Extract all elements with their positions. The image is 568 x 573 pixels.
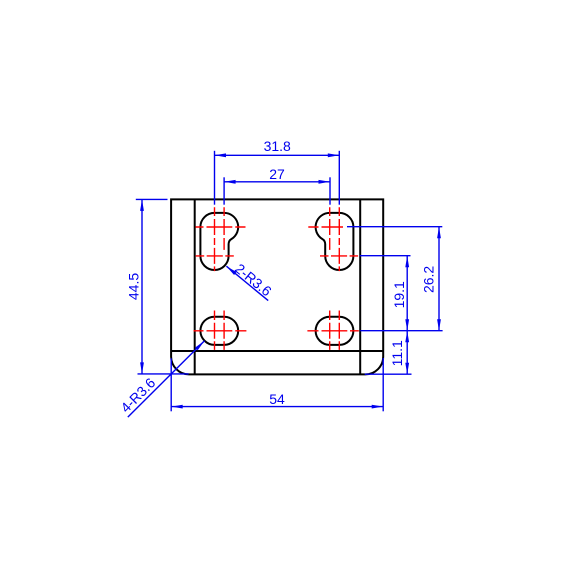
dim 27 extension line right xyxy=(329,177,331,204)
dim 26.2 dimension line xyxy=(438,227,440,331)
centerline lower-left slot vertical (inner) xyxy=(223,311,225,350)
svg-text:54: 54 xyxy=(269,391,285,407)
dim 54 extension line right xyxy=(382,358,384,411)
leader 2-R3.6 arrow xyxy=(226,266,236,275)
dim 27 dimension line xyxy=(224,181,330,183)
dim 54 right arrow xyxy=(372,405,384,409)
dim 31.8 dimension line xyxy=(215,154,340,156)
dim 27 left arrow xyxy=(224,180,236,184)
slot lower-right xyxy=(316,317,354,345)
dim 26.2 bottom arrow xyxy=(437,319,441,331)
dim 19.1 bottom arrow xyxy=(405,319,409,331)
centerline lower-right slot vertical (inner) xyxy=(329,311,331,350)
dim 11.1 dimension line xyxy=(406,331,408,375)
svg-text:31.8: 31.8 xyxy=(264,138,291,154)
dim 54 dimension line xyxy=(171,406,383,408)
dim 31.8 left arrow xyxy=(215,153,227,157)
centerline lower-right slot vertical (outer) xyxy=(338,311,340,350)
dim 44.5 top arrow xyxy=(140,199,144,211)
bend line (bottom flange) xyxy=(171,350,383,352)
dim 26.2 extension line top xyxy=(347,226,442,228)
centerline upper-left keyhole horizontal (top circles) xyxy=(196,226,246,228)
centerline lower-right slot horizontal xyxy=(307,330,358,332)
dim 19.1 top arrow xyxy=(405,256,409,268)
centerline upper-right keyhole horizontal (bottom circle) xyxy=(320,255,358,257)
centerline upper-right keyhole vertical (outer) xyxy=(338,207,340,271)
slot lower-left xyxy=(200,317,238,345)
dim 11.1 bottom arrow xyxy=(405,363,409,375)
dim 26.2 top arrow xyxy=(437,227,441,239)
dim 44.5 dimension line xyxy=(141,199,143,374)
centerline upper-left keyhole vertical (outer) xyxy=(214,207,216,271)
dim 31.8 right arrow xyxy=(328,153,340,157)
dim 31.8 extension line right xyxy=(338,151,340,205)
dim 27 extension line left xyxy=(223,177,225,204)
left flange bend line xyxy=(194,199,196,374)
centerline upper-right keyhole horizontal (top circles) xyxy=(308,226,343,228)
dim 19.1 dimension line xyxy=(406,256,408,331)
svg-text:27: 27 xyxy=(269,166,285,182)
centerline upper-left keyhole horizontal (bottom circle) xyxy=(196,255,234,257)
right flange bend line xyxy=(359,199,361,374)
part outline: plate 54 x 44.5 with filleted bottom corners xyxy=(171,199,383,374)
svg-text:11.1: 11.1 xyxy=(389,340,405,366)
dim 11.1 top arrow xyxy=(405,331,409,343)
centerline upper-left keyhole vertical (inner) xyxy=(223,207,225,250)
dim 27 right arrow xyxy=(319,180,331,184)
leader 4-R3.6 line xyxy=(128,341,205,417)
dim 44.5 extension line top xyxy=(136,198,168,200)
centerline lower-left slot horizontal xyxy=(194,330,247,332)
dim 19.1 extension line top xyxy=(360,255,411,257)
dim 54 left arrow xyxy=(171,405,183,409)
dim 54 extension line left xyxy=(170,358,172,411)
dim 11.1 extension line bottom xyxy=(365,373,412,375)
keyhole slot upper-right xyxy=(316,213,354,270)
centerline lower-left slot vertical (outer) xyxy=(214,311,216,350)
leader 2-R3.6 line xyxy=(226,266,268,300)
centerline upper-right keyhole vertical (inner) xyxy=(329,207,331,250)
shared extension line at lower slot centerline xyxy=(360,330,442,332)
dim 31.8 extension line left xyxy=(214,151,216,205)
svg-text:44.5: 44.5 xyxy=(125,273,141,300)
keyhole slot upper-left xyxy=(200,213,238,270)
dim 44.5 extension line bottom xyxy=(138,373,189,375)
dim 44.5 bottom arrow xyxy=(140,362,144,374)
svg-text:26.2: 26.2 xyxy=(421,266,437,293)
leader 4-R3.6 arrow xyxy=(195,341,205,351)
svg-text:19.1: 19.1 xyxy=(391,281,407,308)
